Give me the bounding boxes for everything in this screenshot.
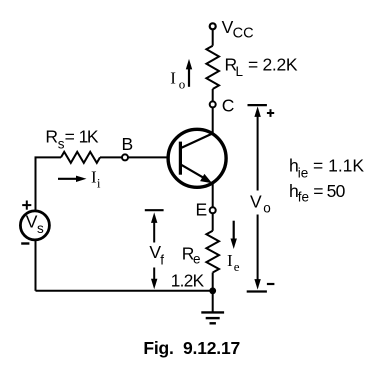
- svg-text:f: f: [160, 253, 164, 268]
- svg-text:I: I: [227, 251, 233, 270]
- svg-text:i: i: [97, 176, 101, 191]
- svg-text:L: L: [236, 64, 244, 79]
- svg-text:R: R: [45, 127, 58, 147]
- svg-text:CC: CC: [233, 25, 254, 41]
- svg-text:I: I: [170, 69, 176, 88]
- svg-text:= 2.2K: = 2.2K: [248, 55, 298, 75]
- svg-text:1.2K: 1.2K: [171, 270, 205, 290]
- svg-text:o: o: [263, 200, 271, 215]
- svg-text:= 1.1K: = 1.1K: [313, 156, 364, 176]
- svg-text:fe: fe: [298, 190, 309, 205]
- svg-text:s: s: [37, 221, 44, 236]
- svg-text:E: E: [196, 200, 208, 220]
- svg-text:ie: ie: [298, 165, 309, 180]
- svg-text:o: o: [179, 76, 186, 91]
- svg-text:V: V: [250, 192, 262, 212]
- svg-text:1K: 1K: [79, 127, 99, 147]
- svg-text:e: e: [234, 259, 240, 274]
- svg-text:V: V: [26, 212, 38, 232]
- svg-text:Fig. 9.12.17: Fig. 9.12.17: [143, 338, 240, 358]
- svg-text:=: =: [65, 127, 75, 147]
- svg-text:C: C: [222, 96, 235, 116]
- svg-text:B: B: [122, 134, 134, 154]
- svg-text:e: e: [193, 252, 201, 267]
- svg-text:= 50: = 50: [313, 181, 345, 201]
